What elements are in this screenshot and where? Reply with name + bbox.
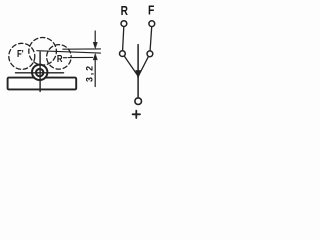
dimension arrow up [93,54,97,60]
leader line T (top extension line) [63,48,101,50]
diagonal wire right [139,57,149,76]
dimension line lower shaft [94,58,96,87]
dimension arrow down [93,42,97,48]
crosshair outer circle (filament mark) [32,65,47,80]
dashed circle middle (top lens circle) [29,38,57,66]
terminal circle F [149,21,155,27]
wire stub from R terminal [123,27,124,51]
contact circle below F [147,51,153,57]
wire stub from F terminal [150,27,152,51]
leader line M (middle circle centre line) [37,51,101,53]
bottom terminal circle [135,98,142,105]
svg-text:R: R [121,4,129,18]
wire to bottom terminal [137,77,139,98]
crosshair vertical line [39,52,41,92]
svg-text:F': F' [17,48,24,59]
svg-text:3,2: 3,2 [84,64,94,82]
diagonal wire left [124,56,137,75]
plus sign [133,113,140,115]
leader line from R label [63,57,67,59]
dashed circle F' (left lens circle) [9,43,35,69]
svg-text:R: R [57,53,63,64]
dimension line upper shaft [94,31,96,43]
centre wire with arrow [137,45,139,71]
crosshair horizontal line [16,72,64,74]
terminal circle R [121,21,127,27]
crosshair inner circle [36,69,43,76]
contact circle below R [120,51,126,57]
svg-text:F: F [148,4,154,18]
base bar (lamp housing) [8,78,77,90]
dashed circle R (right lens circle) [47,45,72,70]
